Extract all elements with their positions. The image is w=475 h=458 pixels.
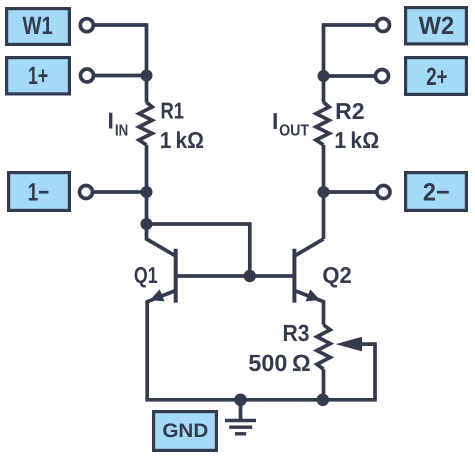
svg-text:OUT: OUT [279, 122, 309, 139]
terminal box 2- [406, 173, 467, 211]
wire R3 bottom to rail [322, 369, 326, 400]
ground bar 1 [225, 419, 256, 422]
wire W2 terminal to right rail [324, 25, 378, 103]
junction node Q1 collector tie [141, 218, 153, 230]
terminal circle 1- [80, 186, 93, 199]
wire R1 bottom to Q1 collector node [145, 145, 149, 224]
junction node 2+ / right rail [318, 70, 330, 82]
terminal box W1 [7, 9, 70, 45]
wire collector node to mirror tie (top horizontal + down) [147, 224, 250, 276]
wire bottom ground rail [145, 398, 376, 402]
wire W1 terminal to left rail [92, 25, 147, 103]
junction node 1+ / left rail [141, 70, 153, 82]
svg-text:GND: GND [162, 420, 208, 442]
svg-text:1−: 1− [28, 178, 50, 206]
terminal box 1- [9, 173, 70, 211]
ground bar 3 [235, 432, 246, 435]
terminal box 1+ [7, 58, 70, 94]
svg-text:IN: IN [115, 122, 128, 139]
junction node R3 bottom [317, 394, 330, 407]
svg-text:W2: W2 [419, 12, 455, 40]
svg-text:R3: R3 [283, 320, 310, 346]
transistor Q1 base bar [174, 249, 178, 303]
arrow Q1 emitter [150, 289, 164, 301]
wire Q2 collector lead [294, 239, 323, 256]
arrow Q2 emitter [306, 289, 320, 301]
terminal box 2+ [406, 58, 467, 95]
resistor R1 zigzag [139, 102, 152, 145]
terminal circle 2+ [376, 70, 389, 83]
svg-text:500 Ω: 500 Ω [248, 350, 310, 376]
ground stem [239, 400, 243, 421]
junction node base bus tie [244, 270, 256, 282]
svg-text:R1: R1 [161, 98, 185, 124]
svg-text:2+: 2+ [426, 63, 447, 91]
wire base bus Q1 to Q2 [176, 274, 295, 278]
transistor Q2 emitter lead [294, 291, 323, 325]
arrow R3 wiper [336, 337, 362, 352]
wire R2 bottom to Q2 collector node [322, 145, 326, 239]
svg-text:Q1: Q1 [134, 262, 158, 288]
transistor Q1 emitter lead [147, 291, 176, 400]
wire 1+ terminal branch [92, 74, 147, 78]
terminal box GND [154, 412, 217, 451]
svg-text:1 kΩ: 1 kΩ [160, 127, 204, 153]
wire 2- terminal branch [324, 190, 379, 194]
terminal circle 1+ [81, 69, 94, 82]
transistor Q2 base bar [292, 249, 296, 303]
junction node 1- / left rail [141, 186, 153, 198]
svg-text:Q2: Q2 [322, 262, 351, 288]
wire 2+ terminal branch [324, 74, 377, 78]
ground bar 2 [229, 426, 252, 429]
terminal box W2 [406, 8, 467, 44]
wire Q1 collector lead [147, 224, 176, 256]
svg-text:I: I [108, 108, 114, 134]
resistor R2 zigzag [316, 102, 329, 145]
svg-text:W1: W1 [22, 12, 52, 40]
svg-text:2−: 2− [423, 178, 450, 206]
svg-text:I: I [272, 108, 278, 134]
resistor R3 zigzag (potentiometer) [317, 325, 330, 369]
terminal circle W2 [377, 19, 390, 32]
svg-text:1+: 1+ [28, 62, 48, 90]
junction node ground tap [234, 394, 247, 407]
wire R3 wiper [360, 344, 375, 400]
junction node 2- / right rail [318, 186, 330, 198]
wire 1- terminal branch [92, 190, 147, 194]
svg-text:R2: R2 [335, 98, 365, 124]
terminal circle W1 [80, 19, 93, 32]
terminal circle 2- [377, 186, 390, 199]
svg-text:1 kΩ: 1 kΩ [334, 127, 379, 153]
